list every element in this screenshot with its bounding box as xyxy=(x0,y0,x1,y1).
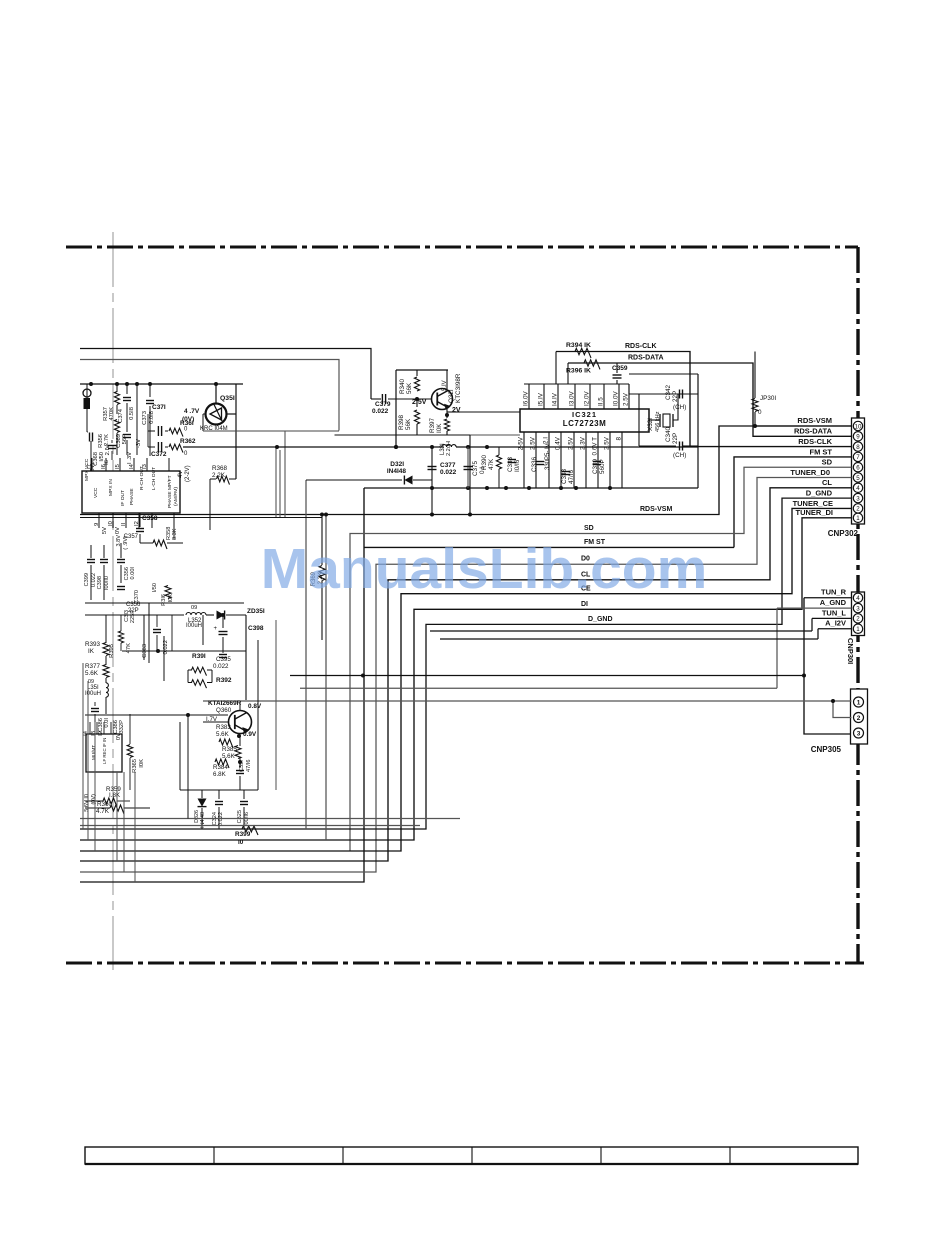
svg-text:I0/I6: I0/I6 xyxy=(514,459,521,472)
svg-text:0.00I: 0.00I xyxy=(130,567,136,580)
svg-text:C398: C398 xyxy=(248,625,264,632)
svg-text:C357: C357 xyxy=(124,534,139,540)
svg-text:C339: C339 xyxy=(592,458,599,474)
svg-text:TUN_R: TUN_R xyxy=(821,588,847,597)
svg-text:5.6K: 5.6K xyxy=(85,670,99,677)
svg-text:2.2uH: 2.2uH xyxy=(446,441,452,456)
svg-text:LC72723M: LC72723M xyxy=(563,419,607,428)
svg-text:2.I: 2.I xyxy=(543,437,550,444)
svg-text:PHASE MP/FT: PHASE MP/FT xyxy=(167,475,173,508)
svg-text:I2: I2 xyxy=(134,521,140,526)
svg-text:R3I6: R3I6 xyxy=(161,594,167,606)
svg-text:C377: C377 xyxy=(440,462,456,469)
svg-text:IK: IK xyxy=(88,648,95,655)
svg-text:MPX VCC: MPX VCC xyxy=(84,458,90,481)
svg-text:R383: R383 xyxy=(216,724,231,731)
svg-text:C359: C359 xyxy=(612,365,628,372)
svg-text:I0K: I0K xyxy=(436,423,443,433)
svg-text:ZD35I: ZD35I xyxy=(247,608,265,615)
svg-text:2V: 2V xyxy=(452,407,461,414)
svg-text:R39I: R39I xyxy=(192,653,206,660)
svg-text:0.022: 0.022 xyxy=(440,469,457,476)
svg-text:0.6V T: 0.6V T xyxy=(592,437,599,456)
svg-text:0.8V: 0.8V xyxy=(248,703,262,710)
svg-text:5V: 5V xyxy=(102,527,108,534)
svg-text:(AM/FM): (AM/FM) xyxy=(173,487,179,506)
svg-text:I5.IV: I5.IV xyxy=(538,392,545,406)
svg-text:10: 10 xyxy=(855,423,862,430)
svg-text:R-CH OUT: R-CH OUT xyxy=(139,466,145,490)
svg-text:47K: 47K xyxy=(488,458,495,470)
svg-text:2.2K: 2.2K xyxy=(212,472,226,479)
svg-text:Q360: Q360 xyxy=(216,707,232,714)
svg-text:(CH): (CH) xyxy=(673,452,686,459)
svg-text:R394 IK: R394 IK xyxy=(566,342,591,349)
svg-text:RDS-DATA: RDS-DATA xyxy=(628,355,664,362)
svg-text:R399: R399 xyxy=(235,831,251,838)
svg-text:3: 3 xyxy=(857,730,861,737)
svg-text:C375: C375 xyxy=(472,460,479,476)
svg-text:R396 IK: R396 IK xyxy=(566,368,591,375)
svg-text:FM ST: FM ST xyxy=(810,447,833,456)
svg-text:+: + xyxy=(213,626,217,632)
svg-text:C398: C398 xyxy=(97,576,103,589)
svg-text:R362: R362 xyxy=(180,438,196,445)
svg-text:A_I2V: A_I2V xyxy=(825,619,846,628)
svg-text:22P: 22P xyxy=(672,391,679,402)
svg-text:C379: C379 xyxy=(375,401,391,408)
svg-text:C373: C373 xyxy=(142,411,148,425)
svg-text:0.9V: 0.9V xyxy=(243,731,257,738)
svg-text:I0: I0 xyxy=(108,521,114,526)
svg-text:332P: 332P xyxy=(119,720,125,734)
svg-text:IC321: IC321 xyxy=(572,410,597,419)
svg-text:56K: 56K xyxy=(405,418,412,430)
svg-text:LF REC IF IN: LF REC IF IN xyxy=(102,738,107,764)
svg-text:4.7K: 4.7K xyxy=(96,808,110,815)
svg-text:CNP30I: CNP30I xyxy=(846,638,855,664)
svg-text:RDS-CLK: RDS-CLK xyxy=(798,437,832,446)
svg-text:I0: I0 xyxy=(238,839,244,846)
svg-text:6: 6 xyxy=(856,465,860,472)
svg-text:22P: 22P xyxy=(672,433,679,444)
svg-text:C372: C372 xyxy=(151,451,167,458)
svg-text:SD: SD xyxy=(584,525,594,532)
svg-text:-3V: -3V xyxy=(136,439,142,448)
svg-text:1: 1 xyxy=(856,515,860,522)
svg-text:2.3V: 2.3V xyxy=(580,436,587,450)
svg-text:09: 09 xyxy=(191,605,197,611)
svg-text:I6: I6 xyxy=(104,460,110,465)
svg-text:R384: R384 xyxy=(213,764,228,771)
svg-text:D_GND: D_GND xyxy=(588,616,613,623)
svg-text:4: 4 xyxy=(856,595,860,602)
svg-text:2: 2 xyxy=(856,616,860,623)
svg-text:CL: CL xyxy=(822,478,832,487)
svg-text:DI: DI xyxy=(581,601,588,608)
svg-text:IF OUT: IF OUT xyxy=(120,490,126,506)
svg-text:SD: SD xyxy=(822,458,833,467)
svg-text:0: 0 xyxy=(758,409,762,416)
svg-text:456 kHz: 456 kHz xyxy=(655,411,661,432)
svg-text:2.7K: 2.7K xyxy=(104,434,110,446)
svg-text:R397: R397 xyxy=(429,417,436,433)
svg-text:22P: 22P xyxy=(128,608,139,614)
svg-text:2.5V: 2.5V xyxy=(530,436,537,450)
svg-text:1: 1 xyxy=(857,699,861,706)
svg-text:ManualsLib.com: ManualsLib.com xyxy=(261,537,708,601)
svg-text:2.5V: 2.5V xyxy=(604,436,611,450)
svg-text:I0.0V: I0.0V xyxy=(613,390,620,406)
svg-text:I00uH: I00uH xyxy=(186,623,202,629)
svg-text:I4.IV: I4.IV xyxy=(552,392,559,406)
svg-text:MPX IN: MPX IN xyxy=(108,479,114,496)
svg-text:RDS-DATA: RDS-DATA xyxy=(794,427,833,436)
svg-text:I2.0V: I2.0V xyxy=(584,390,591,406)
svg-text:I3.0V: I3.0V xyxy=(569,390,576,406)
svg-text:I00uH: I00uH xyxy=(85,691,101,697)
svg-text:II: II xyxy=(121,522,127,526)
svg-text:A_GND: A_GND xyxy=(820,598,847,607)
svg-text:I0K: I0K xyxy=(139,759,145,768)
svg-text:0.022: 0.022 xyxy=(213,663,229,670)
svg-text:CNP302: CNP302 xyxy=(828,529,859,538)
svg-text:5.6K: 5.6K xyxy=(216,731,230,738)
svg-text:RDS-VSM: RDS-VSM xyxy=(797,416,832,425)
svg-text:0.0I: 0.0I xyxy=(104,718,110,728)
svg-text:C383: C383 xyxy=(142,644,148,658)
svg-text:3: 3 xyxy=(856,495,860,502)
svg-text:I6: I6 xyxy=(101,464,107,469)
svg-text:5: 5 xyxy=(856,475,860,482)
svg-text:(2-2V): (2-2V) xyxy=(185,465,191,482)
svg-text:I/50: I/50 xyxy=(152,583,158,592)
svg-text:D_GND: D_GND xyxy=(806,489,833,498)
svg-text:C338: C338 xyxy=(561,468,568,484)
svg-text:TUNER_CE: TUNER_CE xyxy=(793,499,833,508)
svg-text:0.022: 0.022 xyxy=(372,408,389,415)
svg-text:RDS-CLK: RDS-CLK xyxy=(625,343,657,350)
svg-text:2-5V: 2-5V xyxy=(518,436,525,450)
svg-text:0V: 0V xyxy=(115,527,121,534)
svg-text:I6.0V: I6.0V xyxy=(523,390,530,406)
svg-text:56P: 56P xyxy=(122,434,128,444)
svg-text:47/I6: 47/I6 xyxy=(246,760,252,772)
svg-text:C325: C325 xyxy=(237,810,243,823)
svg-text:R398: R398 xyxy=(398,414,405,430)
svg-text:2.5V: 2.5V xyxy=(412,399,427,406)
svg-text:C37I: C37I xyxy=(152,404,166,411)
svg-text:2: 2 xyxy=(856,506,860,513)
svg-text:VCC: VCC xyxy=(93,487,99,498)
svg-text:II.5: II.5 xyxy=(598,397,605,406)
svg-text:CNP305: CNP305 xyxy=(811,745,842,754)
svg-text:TUN_L: TUN_L xyxy=(822,608,847,617)
svg-text:6.8K: 6.8K xyxy=(213,771,227,778)
svg-text:56K: 56K xyxy=(406,382,413,394)
svg-text:JP30I: JP30I xyxy=(760,395,776,402)
svg-text:(CH): (CH) xyxy=(673,404,686,411)
svg-text:8: 8 xyxy=(856,444,860,451)
svg-text:PHASE: PHASE xyxy=(129,488,135,505)
svg-text:4 .7V: 4 .7V xyxy=(184,408,200,415)
svg-text:C342: C342 xyxy=(665,384,672,400)
svg-text:3.3K: 3.3K xyxy=(172,528,178,540)
svg-text:X32I: X32I xyxy=(647,418,654,431)
svg-text:4: 4 xyxy=(856,485,860,492)
svg-text:9: 9 xyxy=(94,523,100,526)
svg-text:C395: C395 xyxy=(216,656,231,663)
svg-text:TUNER_DI: TUNER_DI xyxy=(795,508,833,517)
svg-text:KTAI2669R: KTAI2669R xyxy=(208,700,242,707)
svg-text:7: 7 xyxy=(856,454,860,461)
svg-text:C358: C358 xyxy=(142,515,158,522)
svg-text:R340: R340 xyxy=(399,378,406,394)
svg-text:0.4V: 0.4V xyxy=(555,436,562,450)
svg-text:I .3V: I .3V xyxy=(127,452,133,464)
svg-text:Q35I: Q35I xyxy=(220,395,235,402)
svg-text:0.0I8: 0.0I8 xyxy=(149,411,155,424)
svg-text:C340: C340 xyxy=(665,426,672,442)
svg-text:C374: C374 xyxy=(118,408,124,423)
svg-text:KTC3I98R: KTC3I98R xyxy=(455,373,462,403)
svg-text:9: 9 xyxy=(856,434,860,441)
svg-text:R393: R393 xyxy=(85,641,101,648)
svg-text:R392: R392 xyxy=(216,677,232,684)
svg-text:I0K: I0K xyxy=(168,594,174,603)
svg-text:R377: R377 xyxy=(85,663,101,670)
svg-text:I.8K: I.8K xyxy=(109,792,121,799)
svg-text:47K: 47K xyxy=(126,643,132,653)
svg-text:L-CH OUT: L-CH OUT xyxy=(151,467,157,490)
svg-text:2: 2 xyxy=(857,715,861,722)
svg-text:R365: R365 xyxy=(132,759,138,773)
svg-text:I00/I0: I00/I0 xyxy=(104,576,110,590)
svg-text:4V: 4V xyxy=(178,471,184,478)
svg-text:RDS-VSM: RDS-VSM xyxy=(640,506,672,513)
svg-text:3: 3 xyxy=(856,605,860,612)
svg-text:R395: R395 xyxy=(109,644,115,658)
svg-text:C333: C333 xyxy=(507,456,514,472)
svg-text:Q32I: Q32I xyxy=(448,389,455,403)
svg-text:I4: I4 xyxy=(129,463,135,469)
svg-text:D32I: D32I xyxy=(390,461,404,468)
svg-text:C399: C399 xyxy=(84,573,90,586)
svg-text:5.6K: 5.6K xyxy=(222,753,236,760)
svg-text:8: 8 xyxy=(616,437,623,441)
svg-text:TUNER_D0: TUNER_D0 xyxy=(790,468,830,477)
svg-text:I5: I5 xyxy=(115,464,121,469)
svg-text:IN4I48: IN4I48 xyxy=(387,468,407,475)
svg-text:0.I: 0.I xyxy=(479,467,486,474)
svg-text:2.5V: 2.5V xyxy=(568,436,575,450)
svg-text:470K: 470K xyxy=(109,407,115,421)
svg-text:1: 1 xyxy=(856,626,860,633)
svg-text:0.5I8: 0.5I8 xyxy=(129,407,135,420)
svg-text:5.6V I0: 5.6V I0 xyxy=(84,794,90,812)
svg-text:R368: R368 xyxy=(212,465,228,472)
svg-text:2.5V: 2.5V xyxy=(623,392,630,406)
svg-text:2.IV: 2.IV xyxy=(105,445,111,455)
